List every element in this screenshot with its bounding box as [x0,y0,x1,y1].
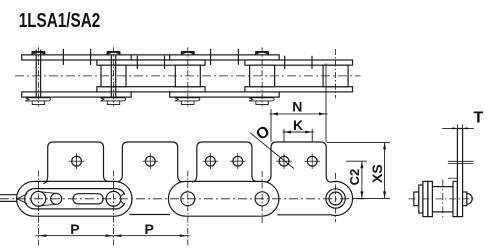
side view break chevron [17,194,27,204]
svg-text:P: P [145,221,154,237]
end view horizontal centerline [409,198,475,200]
pin4 top cap [255,51,268,55]
T dimension [442,127,474,129]
pin5 vertical centerline [335,173,337,222]
svg-text:C2: C2 [347,169,362,186]
plan view inner plate B bottom [97,87,205,92]
svg-text:XS: XS [369,164,385,183]
end view plate L1 [423,181,428,216]
plan view bottom outer plate C [170,92,280,97]
pin1 circle [31,191,46,206]
side view outer plate capsule 1 [17,181,132,216]
clip neck lines [40,192,57,206]
attachment tab 2 [118,142,183,182]
roller5 inner circle [329,192,342,205]
dimension baseline [353,197,390,199]
svg-text:1LSA1/SA2: 1LSA1/SA2 [19,10,101,32]
tab4 hole 1 [279,156,289,166]
end view attachment plate tall [457,129,462,217]
end view washer [419,185,423,213]
tab1 hole [72,156,82,166]
svg-text:P: P [70,221,79,237]
plan view inner plate B top [97,60,205,65]
clip knob [51,193,62,204]
clip notch [120,193,127,204]
K dimension [283,129,285,142]
end view pin head [414,192,419,206]
hole tick C1 plan [210,49,212,65]
end view pin end [463,192,467,206]
hole tick D2 plan [311,56,313,69]
pin3 circle [181,192,195,206]
tab4 hole 2 [307,156,317,166]
pin1 bottom cotter plate [25,98,50,101]
pin5 centerline vertical plan [335,49,337,98]
hole tick A2 plan [90,49,92,65]
pin2 bottom cotter plate [101,98,126,101]
hole tick D1 plan [284,56,286,69]
roller5 outer circle [326,189,345,208]
pin1 centerline vertical plan [37,47,39,106]
tab3 hole 2 [233,156,243,166]
side view break lines left [0,194,18,196]
pin1 vertical centerline [37,171,39,248]
plan view inner plate D bottom [245,87,353,92]
end view plate L2 [428,181,433,216]
plan view horizontal centerline [15,75,361,77]
pin2 top cap [107,51,120,55]
end view pin end bulge [467,193,472,204]
pin2 circle [106,191,121,206]
side view attachment plate end arc at pin5 [331,181,353,215]
hole tick B1 plan [136,56,138,69]
pin4 centerline vertical plan [261,47,263,106]
side view outer plate capsule 2 [168,181,279,216]
pin2 plan pin lines [110,55,112,101]
end view roller barrel [432,186,453,188]
side view horizontal centerline [0,198,364,200]
pin3 vertical centerline [187,171,189,248]
roller at pin2 plan [101,65,126,87]
pin4 vertical centerline [261,171,263,223]
pin3 bottom cotter plate [175,98,200,101]
tab2 hole [145,156,155,166]
pin2 centerline vertical plan [113,47,115,106]
plan view outer plate A end edge [130,55,132,60]
svg-text:N: N [292,98,302,114]
pin3 centerline vertical plan [187,47,189,106]
C2 dimension [346,160,367,162]
svg-text:K: K [293,117,303,133]
side view gap bottom line 2 [278,214,332,216]
P dimension line [36,235,190,237]
capsule1 spring clip outline [25,189,126,209]
O leader line [250,133,293,169]
end view bend shoulder [448,177,458,179]
roller at pin4 plan [250,65,275,87]
pin4 circle [255,192,269,206]
end view attachment hole hidden lines [448,160,474,162]
P arrows [38,234,187,237]
hole tick C2 plan [237,49,239,65]
end view vertical centerline [442,180,444,219]
tab3 hole 1 [206,156,216,166]
attachment tab 4 [265,142,330,182]
XS dimension [327,141,391,143]
pin1 plan pin lines [35,50,37,104]
plan view inner plate D top [245,60,353,65]
svg-text:O: O [253,123,273,144]
side view gap bottom line 1 [130,214,171,216]
pin4 bottom cotter plate [249,98,274,101]
svg-text:T: T [474,110,484,127]
pin1 top cap [32,51,45,55]
clip middle slot [73,194,103,204]
hole tick A1 plan [62,49,64,65]
attachment tab 3 [192,142,256,182]
attachment tab 1 [43,142,108,184]
N dimension [270,109,272,142]
pin2 vertical centerline [113,171,115,248]
plan view top band (outer plates and tab edges) [22,55,280,60]
end view plate R1 [453,181,457,216]
plan view bottom outer plate A [22,92,132,97]
roller at pin5 plan [323,65,348,87]
plan view outer plate C start edge [169,55,171,60]
hole tick B2 plan [164,56,166,69]
roller at pin3 plan [175,65,200,87]
pin3 top cap [181,51,194,55]
